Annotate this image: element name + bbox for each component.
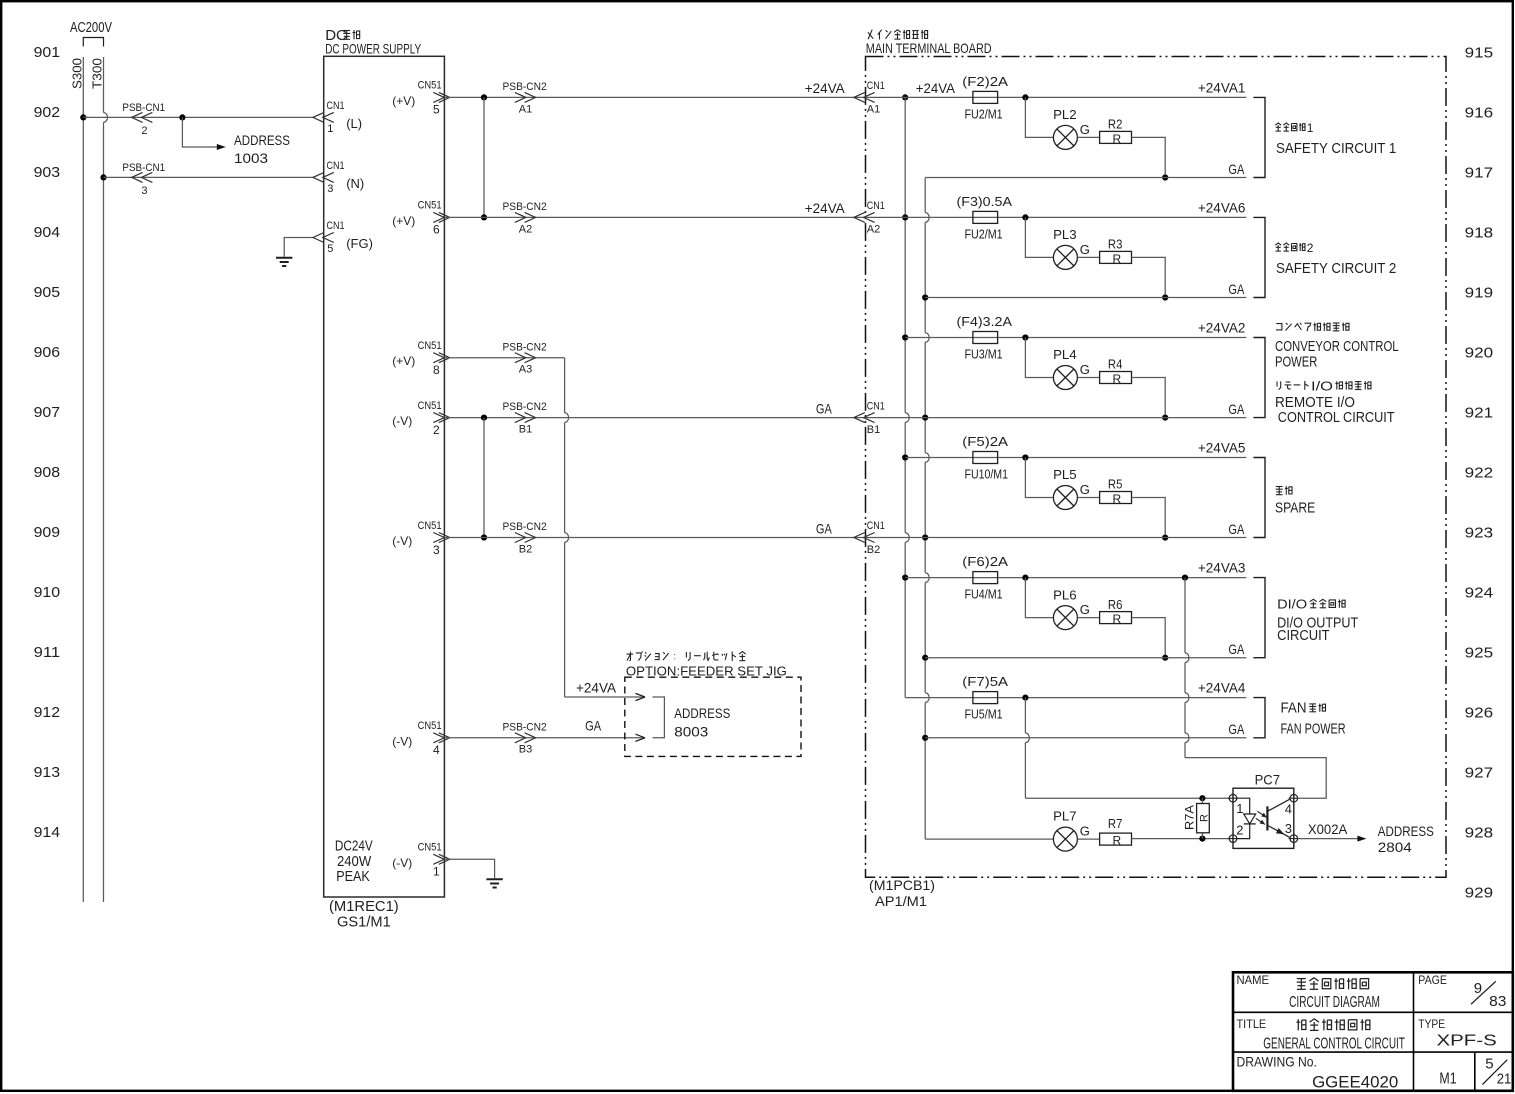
svg-text:+24VA5: +24VA5 <box>1198 440 1246 456</box>
svg-text:PSB-CN2: PSB-CN2 <box>503 521 547 533</box>
svg-text:926: 926 <box>1465 705 1494 722</box>
svg-text:CN51: CN51 <box>418 720 442 732</box>
svg-text:CN1: CN1 <box>867 200 885 212</box>
svg-text:A2: A2 <box>867 224 880 236</box>
svg-text:8: 8 <box>433 363 440 377</box>
svg-text:GA: GA <box>816 400 832 416</box>
svg-text:(FG): (FG) <box>346 236 373 251</box>
svg-text:PAGE: PAGE <box>1418 973 1447 987</box>
svg-text:914: 914 <box>34 824 61 841</box>
svg-text:(L): (L) <box>346 116 362 131</box>
svg-text:X002A: X002A <box>1308 821 1348 837</box>
svg-text:922: 922 <box>1465 465 1494 482</box>
svg-text:CN1: CN1 <box>327 100 345 112</box>
svg-text:GGEE4020: GGEE4020 <box>1312 1073 1398 1092</box>
svg-text:5: 5 <box>433 103 440 117</box>
svg-text:B2: B2 <box>867 544 880 556</box>
svg-text:DI/O: DI/O <box>1277 597 1307 612</box>
svg-text:CN1: CN1 <box>867 520 885 532</box>
svg-text:927: 927 <box>1465 765 1494 782</box>
svg-text:CN1: CN1 <box>867 400 885 412</box>
svg-text:R6: R6 <box>1108 597 1123 612</box>
svg-text:R: R <box>1113 834 1122 848</box>
svg-text:FU4/M1: FU4/M1 <box>965 587 1003 602</box>
svg-text:GENERAL CONTROL CIRCUIT: GENERAL CONTROL CIRCUIT <box>1263 1035 1405 1052</box>
svg-text:SAFETY CIRCUIT 2: SAFETY CIRCUIT 2 <box>1276 260 1396 277</box>
svg-text:1: 1 <box>327 123 333 135</box>
svg-text:924: 924 <box>1465 585 1494 602</box>
svg-text:(-V): (-V) <box>392 414 412 428</box>
svg-text:2804: 2804 <box>1378 839 1412 855</box>
svg-text:(N): (N) <box>346 176 364 191</box>
svg-text:8003: 8003 <box>674 723 708 739</box>
svg-text:PEAK: PEAK <box>336 868 370 885</box>
svg-text:917: 917 <box>1465 165 1494 182</box>
svg-text:B1: B1 <box>867 424 880 436</box>
svg-text:CIRCUIT DIAGRAM: CIRCUIT DIAGRAM <box>1289 994 1380 1011</box>
svg-text:908: 908 <box>34 464 61 481</box>
svg-text:6: 6 <box>433 223 440 237</box>
svg-text:G: G <box>1080 362 1090 377</box>
svg-text:R: R <box>1113 372 1122 386</box>
svg-text:+24VA: +24VA <box>805 80 846 96</box>
svg-text:CN1: CN1 <box>327 220 345 232</box>
svg-text:5: 5 <box>1485 1055 1493 1072</box>
svg-text:1: 1 <box>433 865 440 879</box>
svg-text:SPARE: SPARE <box>1275 500 1315 517</box>
svg-text:CN1: CN1 <box>867 80 885 92</box>
svg-text:R: R <box>1198 814 1210 822</box>
svg-text:921: 921 <box>1465 405 1494 422</box>
svg-text:G: G <box>1080 823 1090 838</box>
svg-text:(-V): (-V) <box>392 534 412 548</box>
svg-text:CN51: CN51 <box>418 80 442 92</box>
svg-text:CN51: CN51 <box>418 200 442 212</box>
svg-text:+24VA3: +24VA3 <box>1198 560 1246 576</box>
svg-text:PSB-CN1: PSB-CN1 <box>122 102 165 114</box>
svg-text:XPF-S: XPF-S <box>1437 1032 1497 1049</box>
svg-text:FU2/M1: FU2/M1 <box>965 106 1003 121</box>
svg-text:M1: M1 <box>1439 1071 1456 1088</box>
svg-text:R2: R2 <box>1108 117 1123 132</box>
svg-text:GS1/M1: GS1/M1 <box>337 914 391 931</box>
svg-text:1: 1 <box>1307 121 1314 135</box>
svg-text:+24VA: +24VA <box>916 80 956 96</box>
svg-text:(M1REC1): (M1REC1) <box>329 898 399 915</box>
svg-text:919: 919 <box>1465 285 1494 302</box>
svg-text:902: 902 <box>34 104 61 121</box>
svg-text:AP1/M1: AP1/M1 <box>875 893 927 909</box>
svg-text:GA: GA <box>816 520 832 536</box>
svg-text:GA: GA <box>1228 401 1244 417</box>
svg-text:DC POWER SUPPLY: DC POWER SUPPLY <box>325 41 421 57</box>
svg-text:4: 4 <box>433 743 440 757</box>
svg-text:2: 2 <box>1236 822 1243 837</box>
svg-text:A3: A3 <box>519 364 532 376</box>
svg-text:S300: S300 <box>70 58 85 89</box>
svg-text:916: 916 <box>1465 105 1494 122</box>
svg-text:PL6: PL6 <box>1053 587 1077 602</box>
svg-text:OPTION:FEEDER SET JIG: OPTION:FEEDER SET JIG <box>626 664 787 679</box>
svg-text:FAN POWER: FAN POWER <box>1281 721 1346 738</box>
svg-text:PSB-CN2: PSB-CN2 <box>503 201 547 213</box>
svg-text:NAME: NAME <box>1237 973 1270 987</box>
svg-text:2: 2 <box>141 125 147 137</box>
svg-text:GA: GA <box>1228 521 1244 537</box>
svg-text:PSB-CN1: PSB-CN1 <box>122 162 165 174</box>
svg-text:TYPE: TYPE <box>1418 1017 1445 1031</box>
svg-text:(-V): (-V) <box>392 856 412 870</box>
svg-text:T300: T300 <box>90 58 105 89</box>
svg-text:G: G <box>1080 482 1090 497</box>
svg-text:ADDRESS: ADDRESS <box>234 132 290 148</box>
svg-text:PSB-CN2: PSB-CN2 <box>503 721 547 733</box>
svg-text:CN51: CN51 <box>418 340 442 352</box>
svg-text:910: 910 <box>34 584 61 601</box>
svg-text:3: 3 <box>433 543 440 557</box>
svg-text:(+V): (+V) <box>392 94 415 108</box>
svg-text:(-V): (-V) <box>392 734 412 748</box>
svg-text:CN51: CN51 <box>418 842 442 854</box>
svg-text:R: R <box>1113 132 1122 146</box>
svg-text:903: 903 <box>34 164 61 181</box>
svg-text:R5: R5 <box>1108 477 1123 492</box>
svg-text:907: 907 <box>34 404 61 421</box>
svg-text:911: 911 <box>34 644 61 661</box>
svg-text:AC200V: AC200V <box>70 19 112 36</box>
svg-text:PL7: PL7 <box>1053 809 1077 824</box>
svg-text:(F3)0.5A: (F3)0.5A <box>957 194 1013 209</box>
svg-text:920: 920 <box>1465 345 1494 362</box>
svg-text:R7A: R7A <box>1183 805 1197 830</box>
svg-text:I/O: I/O <box>1311 378 1333 393</box>
svg-text:929: 929 <box>1465 885 1494 902</box>
svg-text:909: 909 <box>34 524 61 541</box>
svg-text:925: 925 <box>1465 645 1494 662</box>
svg-text:B1: B1 <box>519 424 532 436</box>
svg-text:(F2)2A: (F2)2A <box>962 74 1008 89</box>
svg-text:CN1: CN1 <box>327 160 345 172</box>
svg-text:+24VA1: +24VA1 <box>1198 79 1246 95</box>
svg-text:FU10/M1: FU10/M1 <box>965 467 1009 482</box>
svg-text:918: 918 <box>1465 225 1494 242</box>
svg-text:A1: A1 <box>867 104 880 116</box>
svg-text:CN51: CN51 <box>418 400 442 412</box>
svg-text:(F7)5A: (F7)5A <box>962 674 1008 689</box>
svg-text:ADDRESS: ADDRESS <box>674 705 730 721</box>
svg-text:CONTROL CIRCUIT: CONTROL CIRCUIT <box>1278 409 1395 426</box>
svg-text:+24VA4: +24VA4 <box>1198 680 1246 696</box>
svg-text:1: 1 <box>1236 801 1243 816</box>
svg-text:A1: A1 <box>519 103 532 115</box>
svg-text:ADDRESS: ADDRESS <box>1378 823 1434 839</box>
svg-text:DRAWING No.: DRAWING No. <box>1237 1053 1317 1069</box>
svg-text:1003: 1003 <box>234 150 268 166</box>
svg-text:915: 915 <box>1465 45 1494 62</box>
svg-text:POWER: POWER <box>1275 353 1317 370</box>
svg-text:912: 912 <box>34 704 61 721</box>
svg-text:(F6)2A: (F6)2A <box>962 554 1008 569</box>
svg-text:913: 913 <box>34 764 61 781</box>
svg-text:G: G <box>1080 602 1090 617</box>
svg-text:928: 928 <box>1465 825 1494 842</box>
svg-text:FAN: FAN <box>1281 700 1307 717</box>
svg-text:5: 5 <box>327 243 333 255</box>
svg-text:GA: GA <box>585 718 602 734</box>
svg-text:(+V): (+V) <box>392 354 415 368</box>
svg-text:901: 901 <box>34 44 61 61</box>
svg-text:PSB-CN2: PSB-CN2 <box>503 401 547 413</box>
svg-text:906: 906 <box>34 344 61 361</box>
svg-text:PL2: PL2 <box>1053 107 1077 122</box>
svg-text:83: 83 <box>1489 993 1506 1010</box>
svg-text:(F5)2A: (F5)2A <box>962 434 1008 449</box>
svg-text:+24VA: +24VA <box>576 679 617 695</box>
svg-text:MAIN TERMINAL BOARD: MAIN TERMINAL BOARD <box>866 40 992 56</box>
svg-text:B3: B3 <box>519 744 532 756</box>
svg-text:PL5: PL5 <box>1053 467 1077 482</box>
svg-text:R3: R3 <box>1108 237 1123 252</box>
svg-text:SAFETY CIRCUIT 1: SAFETY CIRCUIT 1 <box>1276 140 1396 157</box>
svg-text:3: 3 <box>141 185 147 197</box>
svg-text:+24VA2: +24VA2 <box>1198 320 1246 336</box>
svg-text:21: 21 <box>1497 1071 1512 1088</box>
svg-text:R4: R4 <box>1108 357 1123 372</box>
svg-text:3: 3 <box>327 183 333 195</box>
svg-text:PSB-CN2: PSB-CN2 <box>503 81 547 93</box>
svg-text:G: G <box>1080 242 1090 257</box>
svg-text:GA: GA <box>1228 721 1244 737</box>
svg-text:CN51: CN51 <box>418 520 442 532</box>
svg-text:R7: R7 <box>1108 816 1123 831</box>
svg-text:PC7: PC7 <box>1255 772 1281 788</box>
svg-text:FU3/M1: FU3/M1 <box>965 347 1003 362</box>
svg-text:GA: GA <box>1228 281 1244 297</box>
svg-text:4: 4 <box>1285 802 1292 817</box>
svg-text:(M1PCB1): (M1PCB1) <box>869 877 935 893</box>
svg-text:+24VA6: +24VA6 <box>1198 199 1246 215</box>
svg-text:R: R <box>1113 252 1122 266</box>
svg-text:FU5/M1: FU5/M1 <box>965 707 1003 722</box>
svg-text:G: G <box>1080 122 1090 137</box>
svg-text:3: 3 <box>1285 821 1292 836</box>
svg-text:R: R <box>1113 612 1122 626</box>
svg-text:A2: A2 <box>519 223 532 235</box>
svg-text:PSB-CN2: PSB-CN2 <box>503 341 547 353</box>
svg-text:904: 904 <box>34 224 61 241</box>
svg-text:PL3: PL3 <box>1053 227 1077 242</box>
svg-text:923: 923 <box>1465 525 1494 542</box>
svg-text:CIRCUIT: CIRCUIT <box>1277 627 1330 644</box>
svg-text:905: 905 <box>34 284 61 301</box>
svg-text:GA: GA <box>1228 161 1244 177</box>
svg-text:(+V): (+V) <box>392 214 415 228</box>
svg-text:(F4)3.2A: (F4)3.2A <box>957 314 1013 329</box>
svg-text:R: R <box>1113 492 1122 506</box>
svg-text:TITLE: TITLE <box>1237 1017 1267 1031</box>
svg-text:2: 2 <box>433 423 440 437</box>
svg-text:GA: GA <box>1228 641 1244 657</box>
svg-text:2: 2 <box>1307 241 1314 255</box>
svg-text:+24VA: +24VA <box>805 200 846 216</box>
svg-text:FU2/M1: FU2/M1 <box>965 226 1003 241</box>
svg-text:B2: B2 <box>519 543 532 555</box>
svg-text:PL4: PL4 <box>1053 347 1077 362</box>
